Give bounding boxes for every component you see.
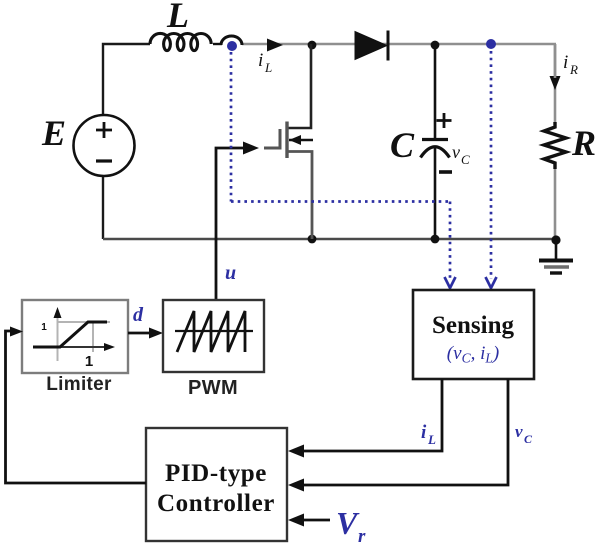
svg-text:L: L bbox=[427, 432, 436, 447]
wire iR stub bbox=[554, 44, 557, 78]
wire top-left black segment bbox=[103, 44, 150, 115]
capacitor C top plate bbox=[422, 138, 448, 141]
wire vC sensing to PID bbox=[296, 379, 508, 485]
svg-text:i: i bbox=[258, 50, 263, 71]
wire top gray bbox=[242, 43, 556, 46]
wire feedback PID to limiter bbox=[6, 331, 147, 483]
svg-text:i: i bbox=[421, 422, 427, 443]
wire d limiter to PWM bbox=[128, 332, 153, 335]
node junction dot bottom B bbox=[431, 235, 440, 244]
blue dotted wire v1 (iL sense vertical) bbox=[230, 52, 233, 202]
wire right vertical gray bbox=[554, 44, 557, 123]
MOSFET body arrow bbox=[289, 139, 313, 141]
voltage source minus sign bbox=[96, 159, 112, 162]
wire inductor to hop bbox=[213, 43, 222, 45]
capacitor plus sign bbox=[437, 113, 452, 128]
voltage source plus sign bbox=[96, 122, 112, 138]
svg-text:R: R bbox=[569, 62, 578, 77]
PID block box bbox=[146, 428, 287, 541]
blue dotted wire down to sensing (iL) bbox=[449, 202, 452, 280]
arrow into limiter bbox=[10, 327, 23, 337]
svg-text:Controller: Controller bbox=[157, 490, 275, 517]
Limiter block box bbox=[22, 300, 128, 373]
MOSFET source wire bbox=[288, 152, 312, 240]
Sensing block box bbox=[413, 290, 534, 379]
wire hop arc over node bbox=[221, 36, 242, 45]
capacitor branch wire lower bbox=[434, 148, 437, 239]
inductor L bbox=[150, 33, 211, 50]
svg-text:1: 1 bbox=[41, 322, 47, 333]
arrow iL on top wire bbox=[267, 39, 283, 52]
svg-text:R: R bbox=[571, 123, 596, 163]
wire u (gate drive) bbox=[216, 148, 250, 300]
svg-text:PID-type: PID-type bbox=[165, 460, 267, 487]
svg-text:i: i bbox=[563, 52, 568, 73]
arrow d bbox=[149, 328, 163, 339]
voltage source E circle bbox=[74, 115, 135, 176]
svg-text:C: C bbox=[524, 432, 533, 446]
PWM block box bbox=[163, 300, 264, 372]
arrow iR down bbox=[550, 76, 561, 90]
svg-text:u: u bbox=[225, 262, 236, 284]
limiter gray ref lines bbox=[58, 322, 111, 352]
svg-text:C: C bbox=[390, 125, 415, 165]
MOSFET gate electrode bbox=[264, 129, 280, 148]
node junction dot B bbox=[431, 41, 440, 50]
capacitor branch wire upper bbox=[434, 45, 437, 138]
ground symbol bbox=[539, 240, 573, 273]
limiter v-axis bbox=[57, 316, 59, 361]
svg-text:r: r bbox=[358, 526, 366, 547]
wire resistor-to-ground gray bbox=[554, 168, 557, 239]
svg-text:L: L bbox=[264, 60, 272, 75]
PWM sawtooth teeth bbox=[177, 311, 245, 352]
svg-text:V: V bbox=[336, 505, 360, 541]
capacitor C curved plate bbox=[421, 147, 450, 158]
svg-text:v: v bbox=[515, 422, 523, 441]
MOSFET channel bar bbox=[285, 122, 288, 159]
svg-text:d: d bbox=[133, 304, 144, 326]
node blue dot (iL tap) bbox=[227, 41, 237, 51]
wire Vr input bbox=[298, 519, 330, 522]
node blue dot (vC tap) bbox=[486, 39, 496, 49]
svg-text:E: E bbox=[41, 113, 66, 153]
blue dotted wire v2 (vC sense vertical) bbox=[490, 51, 493, 279]
wire left-bottom black segment bbox=[102, 176, 104, 239]
node junction dot A bbox=[308, 41, 317, 50]
blue open arrowhead vC into sensing bbox=[486, 277, 497, 288]
diode cathode bar bbox=[387, 31, 390, 61]
arrow vC into PID bbox=[288, 479, 304, 492]
resistor R zigzag bbox=[544, 122, 566, 169]
wire iL sensing to PID bbox=[296, 379, 442, 451]
arrow iL into PID bbox=[288, 445, 304, 458]
svg-text:1: 1 bbox=[85, 353, 93, 370]
diode D bbox=[355, 32, 387, 60]
arrow Vr into PID bbox=[288, 514, 304, 527]
PWM sawtooth midline bbox=[175, 330, 253, 332]
svg-text:Limiter: Limiter bbox=[46, 374, 112, 395]
arrow u to gate bbox=[243, 142, 259, 155]
capacitor minus sign bbox=[439, 170, 452, 174]
limiter saturation curve bbox=[33, 322, 107, 347]
svg-text:C: C bbox=[461, 152, 470, 167]
svg-text:PWM: PWM bbox=[188, 377, 238, 399]
svg-text:Sensing: Sensing bbox=[432, 312, 514, 339]
blue dotted wire horizontal bbox=[231, 200, 450, 203]
node junction dot bottom A bbox=[308, 235, 317, 244]
limiter h-axis bbox=[33, 346, 107, 348]
svg-text:L: L bbox=[166, 0, 189, 35]
blue open arrowhead iL into sensing bbox=[445, 277, 456, 288]
node junction dot at ground bbox=[551, 235, 560, 244]
MOSFET Q1 drain wire bbox=[288, 44, 311, 128]
svg-text:v: v bbox=[452, 142, 460, 162]
wire bottom gray bbox=[103, 238, 556, 240]
